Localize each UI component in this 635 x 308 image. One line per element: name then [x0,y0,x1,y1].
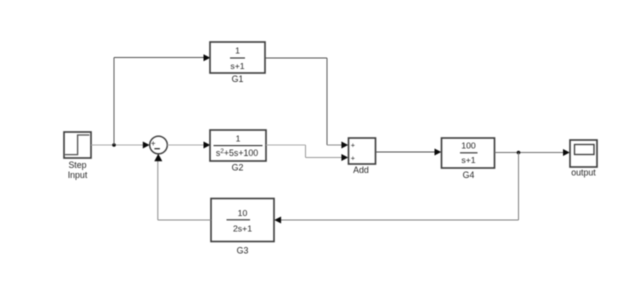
svg-text:1: 1 [236,133,241,143]
wire G4 to output scope [495,149,570,156]
svg-text:G3: G3 [237,246,249,256]
wire feedback junction down and left to G3 [274,153,518,224]
svg-text:1: 1 [235,46,240,56]
svg-text:s+1: s+1 [230,61,244,71]
sink block output scope [570,140,597,177]
wire Step Input to sum junction [91,142,150,149]
wire G2 to Add bottom input [266,145,348,161]
svg-text:100: 100 [461,141,476,151]
block G3 transfer fcn 10/(2s+1) [211,199,274,256]
block G4 transfer fcn 100/(s+1) [442,138,495,180]
source block Step Input [64,132,91,180]
block G2 transfer fcn 1/(s^2+5s+100) [210,130,266,173]
wire branch up to G1 [114,54,210,145]
svg-text:Input: Input [68,170,88,180]
svg-text:+: + [351,141,355,150]
wire sum to G2 [167,142,210,149]
svg-text:2s+1: 2s+1 [233,223,252,233]
block G1 transfer fcn 1/(s+1) [210,42,265,84]
svg-text:G1: G1 [232,74,244,84]
block Add [349,138,376,175]
wire G3 to sum bottom input [154,154,211,220]
svg-text:G4: G4 [463,170,475,180]
svg-text:+: + [151,139,156,148]
svg-text:G2: G2 [232,163,244,173]
node feedback junction dot [517,151,521,155]
sum block (circle +/-) [150,136,168,154]
svg-text:s+1: s+1 [461,155,475,165]
svg-text:+: + [351,154,355,163]
svg-text:Add: Add [353,165,369,175]
wire G1 to Add top input [265,58,348,149]
svg-text:output: output [571,167,596,177]
wire Add to G4 [376,149,442,156]
svg-text:Step: Step [68,160,86,170]
svg-text:10: 10 [238,208,248,218]
node branch junction dot [112,143,116,147]
